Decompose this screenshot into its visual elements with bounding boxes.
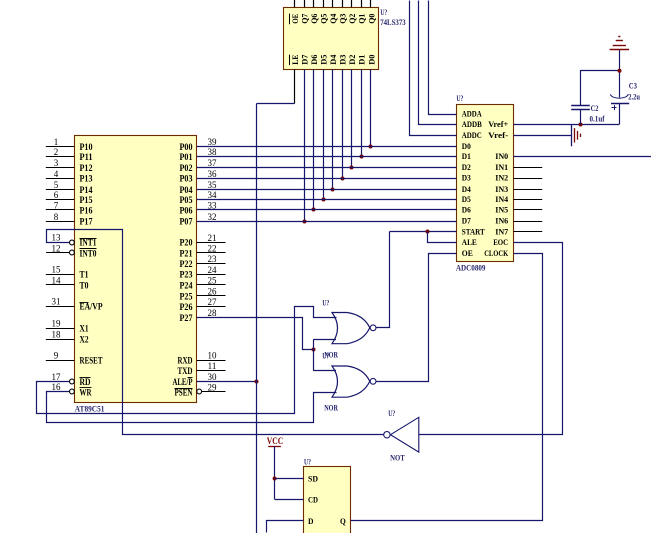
svg-text:19: 19 — [52, 319, 62, 329]
svg-text:D0: D0 — [366, 54, 376, 65]
svg-text:D3: D3 — [338, 54, 348, 65]
svg-text:RESET: RESET — [80, 356, 103, 366]
svg-text:X1: X1 — [80, 324, 89, 334]
svg-text:Q3: Q3 — [338, 13, 348, 24]
svg-text:OE: OE — [462, 248, 473, 258]
svg-text:NOR: NOR — [324, 403, 338, 413]
svg-text:13: 13 — [52, 233, 62, 243]
svg-text:P11: P11 — [80, 152, 93, 162]
svg-text:CLOCK: CLOCK — [484, 248, 508, 258]
svg-text:P20: P20 — [180, 238, 193, 248]
svg-text:X2: X2 — [80, 335, 89, 345]
svg-text:P17: P17 — [80, 217, 93, 227]
svg-text:D0: D0 — [462, 141, 471, 151]
svg-text:C2: C2 — [591, 104, 599, 113]
svg-text:CD: CD — [308, 494, 318, 504]
svg-text:AT89C51: AT89C51 — [75, 404, 105, 414]
svg-text:38: 38 — [208, 147, 218, 157]
svg-text:ALE/P: ALE/P — [173, 377, 193, 387]
svg-text:OE: OE — [290, 14, 300, 24]
svg-text:P16: P16 — [80, 205, 93, 215]
svg-text:24: 24 — [208, 265, 218, 275]
svg-text:IN2: IN2 — [495, 173, 509, 183]
svg-text:WR: WR — [80, 387, 92, 397]
svg-text:12: 12 — [52, 243, 61, 253]
svg-text:P04: P04 — [180, 185, 193, 195]
svg-text:P07: P07 — [180, 217, 193, 227]
svg-text:74LS373: 74LS373 — [380, 17, 406, 27]
svg-text:U?: U? — [322, 350, 329, 360]
svg-text:32: 32 — [208, 212, 217, 222]
svg-text:34: 34 — [208, 190, 218, 200]
svg-text:39: 39 — [208, 137, 218, 147]
svg-text:U?: U? — [322, 297, 329, 307]
svg-text:U?: U? — [456, 93, 463, 103]
svg-text:P10: P10 — [80, 142, 93, 152]
svg-text:C3: C3 — [629, 81, 637, 90]
svg-text:22: 22 — [208, 244, 217, 254]
svg-text:Vref-: Vref- — [488, 130, 508, 140]
svg-text:ADDC: ADDC — [462, 130, 482, 140]
svg-text:15: 15 — [52, 265, 62, 275]
svg-text:U?: U? — [304, 457, 311, 467]
svg-text:P15: P15 — [80, 195, 93, 205]
svg-text:U?: U? — [388, 408, 395, 418]
svg-text:RXD: RXD — [178, 356, 193, 366]
svg-text:30: 30 — [208, 372, 218, 382]
svg-text:9: 9 — [54, 351, 59, 361]
svg-text:33: 33 — [208, 201, 218, 211]
svg-text:4: 4 — [54, 169, 59, 179]
svg-text:P25: P25 — [180, 291, 193, 301]
svg-text:U?: U? — [380, 7, 387, 17]
svg-text:29: 29 — [208, 382, 218, 392]
svg-text:16: 16 — [52, 382, 62, 392]
svg-text:ADC0809: ADC0809 — [456, 262, 486, 272]
svg-text:7: 7 — [54, 201, 59, 211]
svg-text:37: 37 — [208, 158, 218, 168]
svg-text:10: 10 — [208, 351, 218, 361]
svg-text:D4: D4 — [328, 54, 338, 65]
svg-text:35: 35 — [208, 180, 218, 190]
svg-text:SD: SD — [308, 474, 318, 484]
svg-text:D4: D4 — [462, 184, 471, 194]
svg-text:8: 8 — [54, 212, 59, 222]
svg-text:IN1: IN1 — [495, 162, 508, 172]
svg-text:P06: P06 — [180, 205, 193, 215]
svg-text:P00: P00 — [180, 142, 193, 152]
svg-text:INT0: INT0 — [80, 248, 97, 258]
svg-text:T1: T1 — [80, 270, 89, 280]
svg-text:Q1: Q1 — [357, 14, 367, 24]
svg-text:P27: P27 — [180, 313, 193, 323]
svg-text:LE: LE — [290, 54, 300, 64]
svg-text:EA/VP: EA/VP — [80, 302, 103, 312]
svg-text:Q6: Q6 — [309, 13, 319, 24]
svg-text:P05: P05 — [180, 195, 193, 205]
svg-text:23: 23 — [208, 254, 218, 264]
svg-text:P22: P22 — [180, 259, 193, 269]
svg-text:T0: T0 — [80, 281, 89, 291]
svg-text:1: 1 — [54, 137, 59, 147]
svg-text:0.1uf: 0.1uf — [590, 115, 605, 124]
svg-text:11: 11 — [208, 361, 217, 371]
svg-text:17: 17 — [52, 372, 62, 382]
svg-text:D5: D5 — [319, 54, 329, 65]
svg-text:P01: P01 — [180, 152, 193, 162]
svg-text:RD: RD — [80, 377, 91, 387]
svg-text:21: 21 — [208, 233, 217, 243]
svg-text:IN3: IN3 — [495, 184, 509, 194]
svg-text:5: 5 — [54, 180, 59, 190]
svg-text:31: 31 — [52, 297, 61, 307]
svg-text:D6: D6 — [462, 204, 471, 214]
svg-text:IN4: IN4 — [495, 194, 509, 204]
svg-text:D7: D7 — [462, 216, 471, 226]
svg-text:IN0: IN0 — [495, 151, 509, 161]
svg-text:14: 14 — [52, 275, 62, 285]
svg-text:3: 3 — [54, 158, 59, 168]
svg-text:IN7: IN7 — [495, 226, 509, 236]
svg-text:Q: Q — [340, 516, 346, 526]
svg-text:NOT: NOT — [390, 453, 405, 463]
svg-text:D7: D7 — [299, 54, 309, 65]
svg-text:D3: D3 — [462, 173, 471, 183]
svg-text:ADDB: ADDB — [462, 119, 482, 129]
svg-text:D5: D5 — [462, 194, 471, 204]
svg-text:D1: D1 — [462, 151, 471, 161]
svg-text:D6: D6 — [309, 54, 319, 65]
svg-text:P02: P02 — [180, 163, 193, 173]
svg-text:27: 27 — [208, 297, 218, 307]
svg-text:25: 25 — [208, 276, 218, 286]
svg-text:P14: P14 — [80, 185, 93, 195]
svg-text:18: 18 — [52, 330, 62, 340]
svg-text:D2: D2 — [347, 54, 357, 65]
svg-text:2.2u: 2.2u — [628, 92, 640, 101]
svg-text:Q5: Q5 — [319, 13, 329, 24]
svg-text:EOC: EOC — [493, 237, 508, 247]
svg-text:P13: P13 — [80, 174, 93, 184]
svg-text:VCC: VCC — [267, 436, 284, 446]
svg-text:Q7: Q7 — [299, 13, 309, 24]
svg-text:P21: P21 — [180, 248, 193, 258]
svg-text:P23: P23 — [180, 270, 193, 280]
svg-text:Vref+: Vref+ — [488, 119, 508, 129]
svg-text:TXD: TXD — [178, 366, 193, 376]
svg-text:Q2: Q2 — [347, 13, 357, 24]
svg-text:IN5: IN5 — [495, 204, 509, 214]
svg-text:D1: D1 — [357, 55, 367, 65]
svg-text:D: D — [308, 516, 314, 526]
svg-text:ADDA: ADDA — [462, 109, 483, 119]
svg-text:Q0: Q0 — [366, 13, 376, 24]
svg-text:P26: P26 — [180, 302, 193, 312]
svg-text:P24: P24 — [180, 281, 193, 291]
svg-text:Q4: Q4 — [328, 13, 338, 24]
svg-text:IN6: IN6 — [495, 216, 509, 226]
svg-text:INT1: INT1 — [80, 238, 97, 248]
svg-text:2: 2 — [54, 147, 59, 157]
svg-text:P03: P03 — [180, 174, 193, 184]
svg-text:START: START — [462, 226, 485, 236]
svg-text:D2: D2 — [462, 162, 471, 172]
svg-text:6: 6 — [54, 190, 59, 200]
svg-text:28: 28 — [208, 308, 218, 318]
svg-text:P12: P12 — [80, 163, 93, 173]
svg-text:26: 26 — [208, 286, 218, 296]
svg-text:36: 36 — [208, 169, 218, 179]
svg-text:ALE: ALE — [462, 237, 477, 247]
